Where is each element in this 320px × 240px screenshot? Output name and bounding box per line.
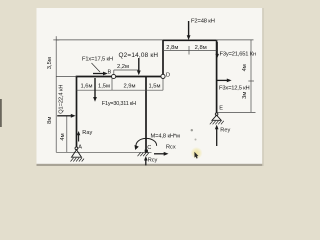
dim label 2,8m first <box>166 45 178 51</box>
dim label 3m right rotated <box>242 92 248 99</box>
force F3y arrow (down along right column) <box>215 42 219 58</box>
label F1y <box>102 101 136 107</box>
member: beam B-D (y=76.5) <box>76 76 163 78</box>
label F3x <box>219 85 249 91</box>
node C square <box>145 150 148 153</box>
reaction Rcx arrow <box>154 152 169 156</box>
node label C <box>147 145 151 151</box>
label Ray <box>82 130 92 136</box>
svg-text:F1y=30,311 кН: F1y=30,311 кН <box>102 101 136 107</box>
beam dim tick at D x=163 <box>162 78 164 90</box>
screen left edge dark mark <box>0 99 2 127</box>
svg-text:2,8м: 2,8м <box>166 45 178 51</box>
node B hinge circle <box>112 74 116 78</box>
force F2 arrow <box>187 21 191 40</box>
support C hatching <box>138 153 149 157</box>
svg-text:1,6м: 1,6м <box>80 84 92 90</box>
dim label 1,5m right <box>148 84 160 90</box>
svg-text:2,9м: 2,9м <box>123 84 135 90</box>
svg-text:Q1=22,4 кН: Q1=22,4 кН <box>58 85 64 114</box>
dim label 1,6m <box>80 84 92 90</box>
svg-text:D: D <box>166 73 170 79</box>
extension line at E level (y=112.4) <box>217 111 256 113</box>
dim line 2.8m+2.8m (y=51) <box>163 46 217 55</box>
force F1y arrow (down below beam) <box>93 78 97 102</box>
svg-text:F3x=12,5 кН: F3x=12,5 кН <box>219 85 249 91</box>
svg-text:M=4,8 кН*м: M=4,8 кН*м <box>151 134 180 140</box>
svg-text:8м: 8м <box>47 117 53 124</box>
dim label 2,9m <box>123 84 135 90</box>
svg-text:3,5м: 3,5м <box>47 57 53 69</box>
member: right column to E (x=216.6) <box>216 40 218 113</box>
svg-text:2,8м: 2,8м <box>195 45 207 51</box>
extension line beam level left (y=76.5) <box>56 76 76 78</box>
paper right edge shadow <box>262 8 264 166</box>
label Rey <box>220 128 230 134</box>
reaction Rcy arrow <box>144 156 148 165</box>
svg-text:Ray: Ray <box>82 130 92 136</box>
svg-text:F1x=17,5 кН: F1x=17,5 кН <box>82 56 113 62</box>
svg-text:1,5м: 1,5м <box>98 84 110 90</box>
label F3y <box>220 51 256 57</box>
dim label 4m left rotated <box>60 133 66 140</box>
mouse cursor with yellow glow <box>191 129 203 159</box>
member: top chord (y=40.3) <box>163 39 217 41</box>
node label A <box>78 144 82 150</box>
support E: pin circle, triangle, hatching <box>210 113 224 125</box>
svg-text:4м: 4м <box>242 64 248 71</box>
dim label 3,5m rotated <box>47 57 53 69</box>
beam dim tick at B x=112 <box>111 78 113 90</box>
label F1x <box>82 56 113 62</box>
member: middle column to C (x=146) <box>145 77 147 151</box>
support A: pin circle, triangle, hatching <box>71 147 85 162</box>
dim label 2,2m <box>117 64 129 70</box>
svg-text:4м: 4м <box>60 133 66 140</box>
svg-text:C: C <box>147 145 151 151</box>
node label E <box>219 106 223 112</box>
extension line top right to dim line <box>217 39 254 41</box>
member: left column A-B (x=76.5) <box>76 77 78 149</box>
label Rcy <box>148 158 158 164</box>
extension line top (y=39.9) <box>56 39 163 41</box>
svg-text:Q2=14,08 кН: Q2=14,08 кН <box>119 52 159 59</box>
node label D <box>166 73 170 79</box>
force Q1 arrow (right onto left column) <box>57 114 75 118</box>
beam dimension line y=90 <box>77 89 164 91</box>
dim label 2,8m second <box>195 45 207 51</box>
svg-text:F3y=21,651 Кн: F3y=21,651 Кн <box>220 51 256 57</box>
dim label 8m rotated <box>47 117 53 124</box>
dim line 2.2m (y=70) <box>114 70 139 76</box>
svg-text:Rcx: Rcx <box>166 145 176 151</box>
svg-text:1,5м: 1,5м <box>148 84 160 90</box>
force F1x arrow with leader <box>92 63 108 75</box>
member: post above D (x=163) <box>162 40 164 77</box>
label M <box>151 134 180 140</box>
svg-text:Rcy: Rcy <box>148 158 158 164</box>
label Q2 <box>119 52 159 59</box>
dim label 1,5m <box>98 84 110 90</box>
svg-text:Rey: Rey <box>220 128 230 134</box>
background desk <box>0 0 300 168</box>
dimension line L2 x=66.8 (4m lower) <box>66 116 68 153</box>
paper sheet <box>37 8 264 165</box>
node label B <box>108 69 112 75</box>
label Rcx <box>166 145 176 151</box>
svg-text:3м: 3м <box>242 92 248 99</box>
label F2 <box>191 19 215 25</box>
svg-text:E: E <box>219 106 223 112</box>
force Q2 arrow <box>137 58 141 75</box>
ground line A to C (y=153.3) <box>56 151 151 153</box>
reaction Ray arrow <box>77 131 80 142</box>
svg-text:F2=48 кН: F2=48 кН <box>191 19 215 25</box>
dimension line L3 x=251 (4m / 3m) <box>248 40 254 113</box>
moment M arc arrow at C <box>135 138 157 150</box>
svg-text:A: A <box>78 144 82 150</box>
force F3x arrow (right from column) <box>217 79 232 83</box>
svg-text:B: B <box>108 69 112 75</box>
dimension line L1 x=56.2 (3.5m / 8m) <box>53 36 59 152</box>
reaction Rey arrow <box>215 125 219 146</box>
dim label 4m right rotated <box>242 64 248 71</box>
paper bottom shadow edge <box>37 164 264 166</box>
svg-text:2,2м: 2,2м <box>117 64 129 70</box>
node D hinge circle <box>161 74 165 78</box>
label Q1 rotated <box>58 85 64 114</box>
